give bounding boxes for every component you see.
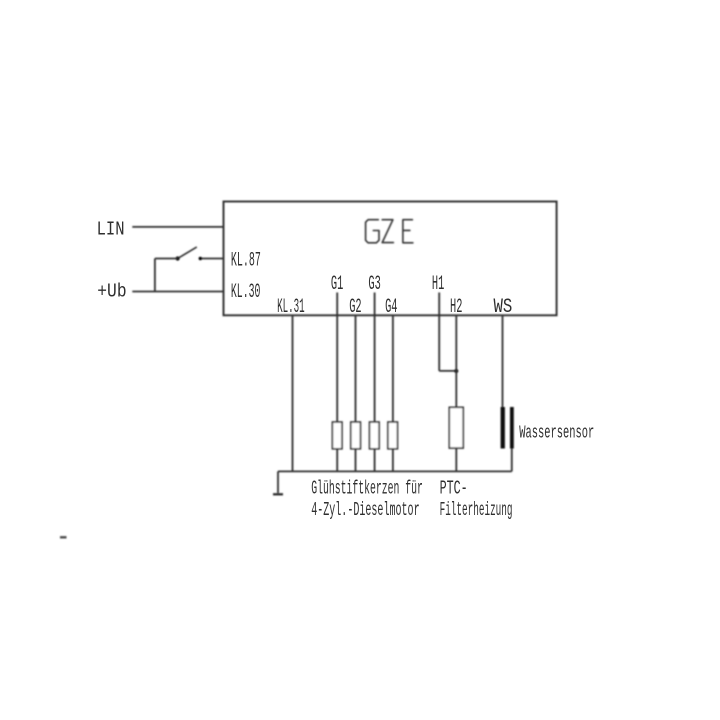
wire WS bottom [511, 449, 513, 472]
pin label H2 [450, 296, 462, 319]
switch S1 [176, 247, 203, 261]
ground drop wire [277, 471, 279, 493]
svg-text:G2: G2 [349, 296, 361, 319]
wire G2 [355, 315, 357, 471]
svg-text:Glühstiftkerzen für: Glühstiftkerzen für [311, 478, 423, 500]
wire branch vertical [154, 259, 156, 292]
wire switch to branch [155, 258, 178, 260]
label +Ub [97, 280, 126, 302]
pin label G2 [349, 296, 361, 319]
wire LIN [132, 226, 223, 228]
glow plug R1 [332, 422, 342, 449]
pin label WS [494, 296, 513, 319]
svg-text:G1: G1 [331, 273, 343, 296]
svg-text:H1: H1 [432, 273, 444, 296]
label Gluehstiftkerzen fuer [311, 478, 423, 500]
wire KL.87 to switch [200, 258, 223, 260]
ground [273, 493, 283, 495]
svg-text:PTC-: PTC- [440, 478, 468, 500]
label LIN [97, 219, 125, 241]
water sensor right plate [510, 407, 514, 449]
water sensor left plate [501, 407, 505, 449]
wire KL.31 [292, 315, 294, 471]
label Filterheizung [440, 499, 513, 521]
svg-text:H2: H2 [450, 296, 462, 319]
svg-text:Wassersensor: Wassersensor [519, 423, 594, 444]
wire WS top [502, 315, 504, 408]
wire H2 [455, 315, 457, 471]
wire G1 [336, 293, 338, 472]
GZE control unit box U1 [224, 202, 557, 316]
svg-text:G3: G3 [368, 273, 380, 296]
ground bus wire [278, 470, 512, 472]
pin label G1 [331, 273, 343, 296]
label GZE [366, 220, 413, 243]
label PTC- [440, 478, 468, 500]
svg-text:KL.87: KL.87 [231, 250, 261, 273]
pin label H1 [432, 273, 444, 296]
svg-text:+Ub: +Ub [97, 280, 126, 302]
label KL.30 [231, 281, 261, 304]
pin label KL.31 [277, 296, 305, 319]
svg-text:G4: G4 [385, 296, 397, 319]
svg-text:4-Zyl.-Dieselmotor: 4-Zyl.-Dieselmotor [311, 499, 419, 521]
svg-text:Filterheizung: Filterheizung [440, 499, 513, 521]
wire H1 vertical [438, 293, 440, 371]
junction node H1/H2 [454, 369, 458, 373]
wire +Ub [132, 291, 223, 293]
label KL.87 [231, 250, 261, 273]
svg-text:KL.31: KL.31 [277, 296, 305, 319]
pin label G3 [368, 273, 380, 296]
svg-text:KL.30: KL.30 [231, 281, 261, 304]
glow plug R4 [388, 422, 398, 449]
svg-text:LIN: LIN [97, 219, 125, 241]
svg-text:WS: WS [494, 296, 513, 319]
PTC heater resistor [449, 407, 463, 448]
wire H1 horizontal jog [439, 370, 456, 372]
glow plug R2 [351, 422, 361, 449]
wire G3 [374, 293, 376, 472]
pin label G4 [385, 296, 397, 319]
label Wassersensor [519, 423, 594, 444]
label 4-Zyl.-Dieselmotor [311, 499, 419, 521]
glow plug R3 [370, 422, 380, 449]
scan artifact dash [60, 536, 67, 538]
wire G4 [392, 315, 394, 471]
